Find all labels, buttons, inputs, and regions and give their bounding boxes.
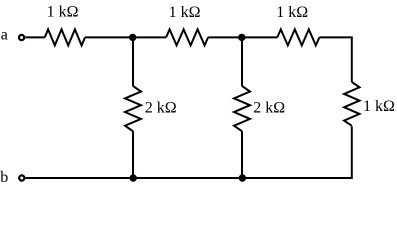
wire top rail a to R1 bbox=[25, 36, 45, 38]
svg-text:2 kΩ: 2 kΩ bbox=[253, 100, 285, 117]
junction node 3 (bottom left) bbox=[130, 174, 137, 181]
svg-text:1 kΩ: 1 kΩ bbox=[363, 98, 395, 115]
junction node 1 (top) bbox=[129, 34, 136, 41]
resistor 2 kΩ left shunt bbox=[125, 86, 141, 131]
terminal a bbox=[19, 35, 24, 40]
svg-text:b: b bbox=[0, 169, 8, 186]
junction node 2 (top) bbox=[238, 34, 245, 41]
svg-text:a: a bbox=[1, 27, 8, 44]
wire top rail R2 to node 2 to R3 bbox=[208, 36, 277, 38]
wire left shunt column upper bbox=[132, 37, 134, 86]
wire top rail R1 to node 1 to R2 bbox=[85, 36, 166, 38]
wire middle shunt column lower bbox=[241, 131, 243, 178]
wire left shunt column lower bbox=[132, 131, 134, 178]
resistor 1 kΩ top-left bbox=[45, 29, 85, 45]
resistor 1 kΩ right shunt bbox=[344, 82, 359, 126]
junction node 4 (bottom middle) bbox=[239, 174, 246, 181]
svg-text:1 kΩ: 1 kΩ bbox=[169, 4, 201, 21]
resistor 1 kΩ top-right bbox=[277, 29, 319, 45]
wire right column lower bbox=[351, 126, 353, 179]
terminal b bbox=[19, 175, 24, 180]
wire bottom rail bbox=[25, 177, 351, 179]
resistor 1 kΩ top-middle bbox=[166, 29, 208, 45]
svg-text:1 kΩ: 1 kΩ bbox=[276, 4, 308, 21]
resistor 2 kΩ middle shunt bbox=[234, 86, 250, 131]
svg-text:2 kΩ: 2 kΩ bbox=[145, 100, 177, 117]
svg-text:1 kΩ: 1 kΩ bbox=[47, 4, 79, 21]
wire right column upper bbox=[351, 36, 353, 82]
wire middle shunt column upper bbox=[241, 37, 243, 86]
wire top rail R3 to right corner bbox=[319, 36, 351, 38]
